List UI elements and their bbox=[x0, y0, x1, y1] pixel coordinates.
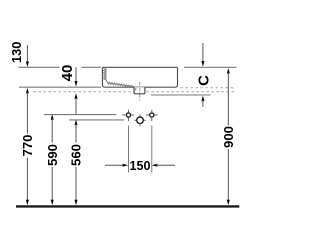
dimension 560 up arrow bbox=[75, 120, 78, 126]
dimension 590 up arrow bbox=[51, 114, 54, 120]
dimension 590 down arrow bbox=[51, 200, 54, 206]
dimension 770 up arrow bbox=[26, 88, 29, 94]
basin bottom dashed line right bbox=[181, 87, 236, 89]
extension line below left faucet hole bbox=[128, 126, 130, 173]
dimension 900 shaft lower bbox=[227, 149, 229, 201]
drain hole circle bbox=[137, 117, 144, 124]
svg-text:150: 150 bbox=[129, 159, 150, 173]
dimension 150 left-pointing arrow bbox=[152, 164, 158, 167]
drain hole crosshair ticks bbox=[134, 114, 145, 126]
dimension C up arrow bbox=[201, 96, 204, 102]
dimension 770 shaft upper bbox=[26, 92, 28, 133]
faucet hole level line C1 bbox=[44, 114, 116, 116]
drain hole level line C2 bbox=[69, 119, 124, 121]
dimension C upper shaft bbox=[202, 43, 204, 62]
rim line middle bbox=[82, 66, 101, 68]
dimension C lower shaft bbox=[202, 100, 204, 107]
dimension 40 upper shaft bbox=[75, 67, 77, 81]
dimension 130 down arrow bbox=[26, 62, 29, 68]
faucet hole left crosshair ticks bbox=[122, 110, 134, 121]
faucet hole circle right bbox=[150, 113, 154, 117]
drain centerline bbox=[139, 82, 141, 101]
dimension 130 upper shaft bbox=[26, 45, 28, 63]
drain pocket bbox=[134, 87, 145, 94]
dimension 150 right leader bbox=[156, 164, 175, 166]
svg-text:770: 770 bbox=[20, 134, 35, 156]
faucet hole circle left bbox=[126, 113, 130, 117]
svg-text:900: 900 bbox=[221, 126, 236, 148]
dimension 590 shaft lower bbox=[51, 167, 53, 201]
dimension 560 down arrow bbox=[75, 200, 78, 206]
dimension C down arrow bbox=[201, 61, 204, 67]
svg-text:C: C bbox=[196, 75, 213, 86]
dimension 560 shaft lower bbox=[75, 167, 77, 201]
svg-text:560: 560 bbox=[69, 144, 84, 166]
svg-text:40: 40 bbox=[59, 65, 76, 82]
dimension 900 shaft upper bbox=[227, 73, 229, 126]
pocket bottom extension line right bbox=[151, 94, 211, 96]
dimension 40 up arrow at dashed line bbox=[75, 93, 78, 99]
dimension 40 lower shaft bbox=[75, 98, 77, 114]
dimension 900 up arrow bbox=[227, 68, 230, 74]
rim line right bbox=[184, 66, 237, 68]
basin wall hatching bbox=[103, 68, 133, 87]
svg-text:590: 590 bbox=[45, 144, 60, 166]
dimension 770 shaft lower bbox=[26, 158, 28, 201]
dimension 40 down arrow bbox=[75, 81, 78, 87]
faucet hole right crosshair ticks bbox=[146, 110, 158, 121]
floor line bbox=[16, 205, 239, 207]
basin outline bbox=[102, 67, 177, 87]
dimension 150 right-pointing arrow bbox=[123, 164, 129, 167]
rim line left bbox=[19, 66, 60, 68]
basin inner wall line bbox=[106, 68, 134, 86]
svg-text:130: 130 bbox=[9, 42, 24, 63]
dimension 590 shaft upper bbox=[51, 119, 53, 143]
dimension 560 shaft upper bbox=[75, 124, 77, 142]
dimension 900 down arrow bbox=[227, 200, 230, 206]
dimension 150 left leader bbox=[105, 164, 124, 166]
pocket interior hatch bbox=[135, 88, 137, 90]
extension line below right faucet hole bbox=[151, 126, 153, 173]
countertop dashed line right part bbox=[147, 91, 236, 93]
dimension 770 down arrow bbox=[26, 200, 29, 206]
countertop dashed line left part bbox=[34, 91, 134, 93]
basin bottom extension line left bbox=[19, 86, 101, 88]
